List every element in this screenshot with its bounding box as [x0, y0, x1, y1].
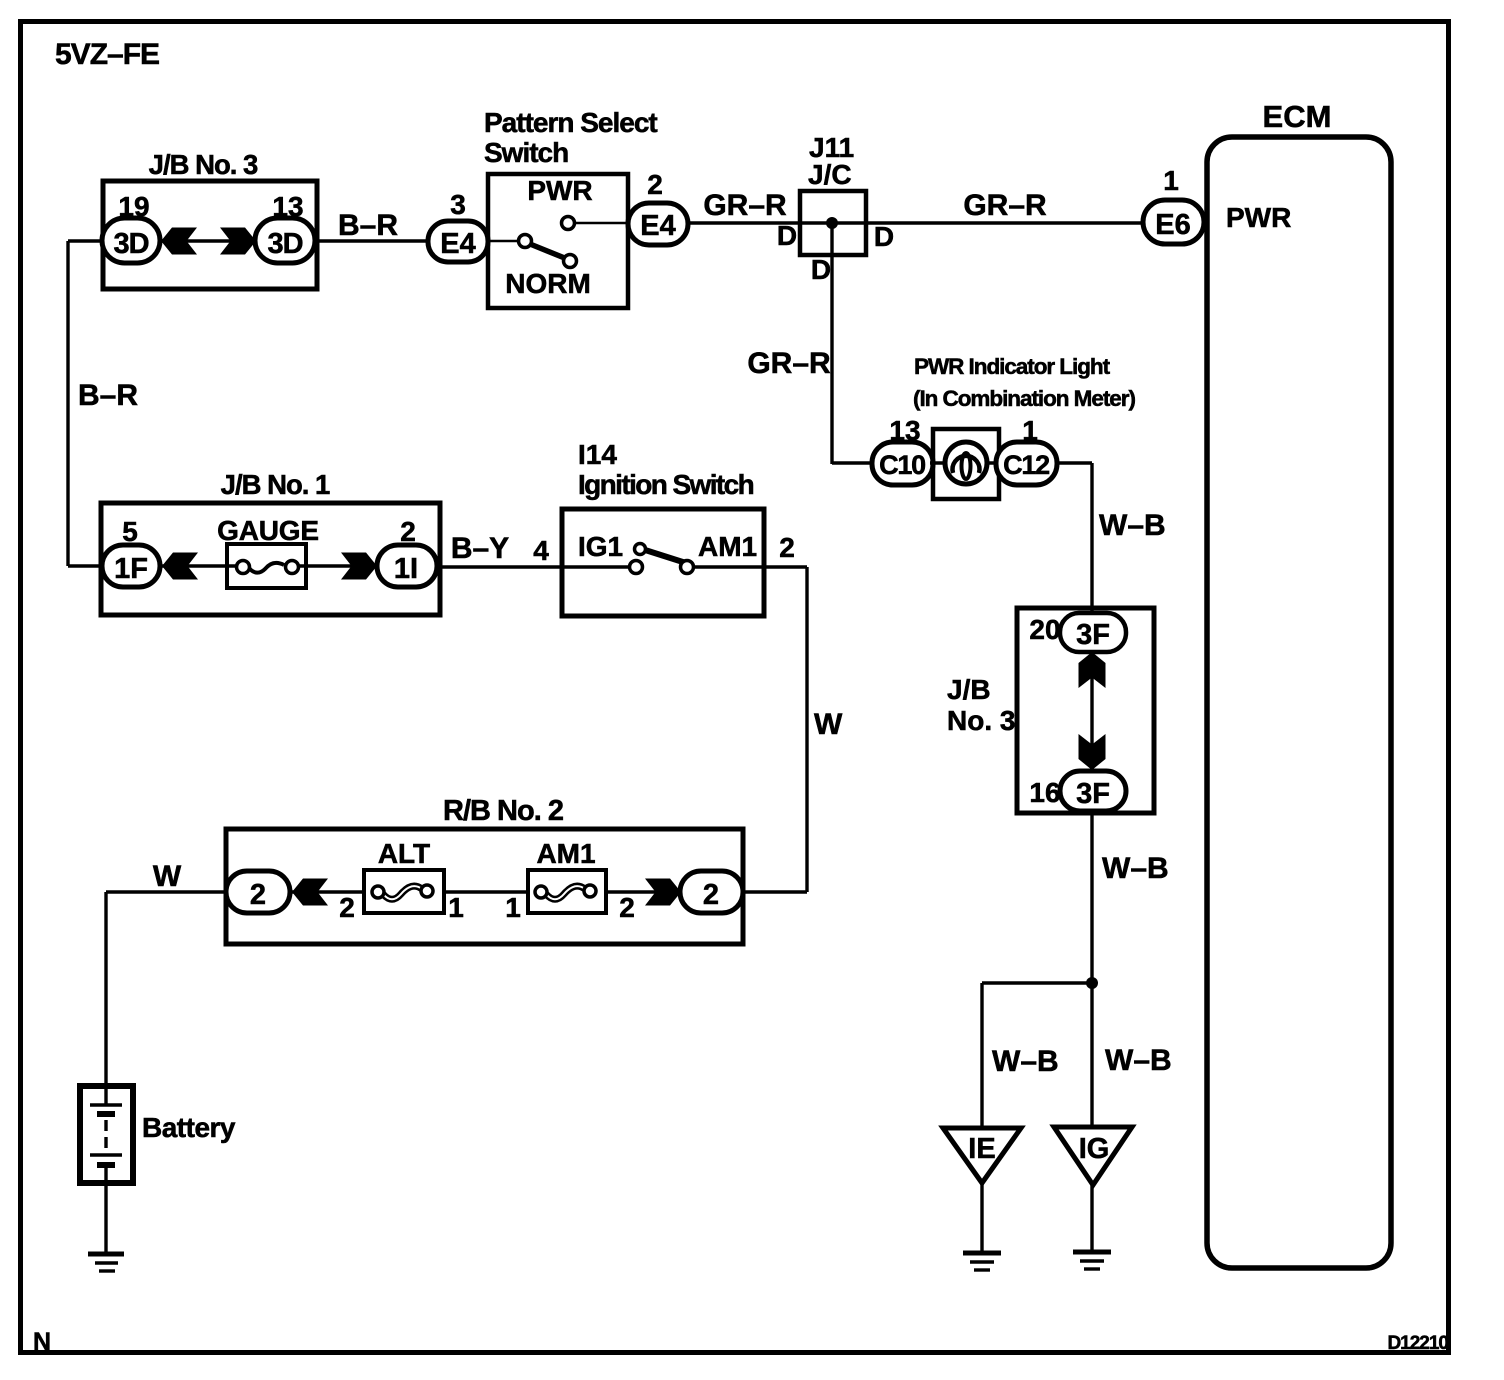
svg-text:Pattern Select: Pattern Select	[484, 107, 657, 138]
svg-text:D: D	[874, 221, 894, 252]
svg-text:Ignition Switch: Ignition Switch	[578, 469, 754, 500]
wire inside J/B No.1	[158, 564, 238, 567]
male arrow up	[1079, 652, 1106, 688]
wire GR-R main run	[688, 221, 1145, 224]
J/B No. 3 (top left) box	[103, 181, 317, 289]
wire B-R horizontal	[315, 239, 430, 242]
AM1 contact	[681, 561, 694, 574]
svg-text:ALT: ALT	[378, 838, 430, 869]
svg-text:16: 16	[1029, 777, 1060, 808]
wire IE to ground	[980, 1183, 983, 1253]
svg-text:B–Y: B–Y	[451, 532, 509, 565]
male arrow right	[341, 553, 377, 580]
svg-text:B–R: B–R	[338, 209, 398, 242]
svg-text:1: 1	[448, 892, 464, 923]
battery box	[80, 1086, 133, 1183]
connector 2 right	[680, 871, 743, 913]
wire B-Y	[437, 565, 632, 568]
wire IG to ground	[1090, 1185, 1093, 1252]
svg-text:AM1: AM1	[698, 531, 757, 562]
svg-text:5VZ–FE: 5VZ–FE	[55, 38, 159, 71]
wire between 3D connectors	[158, 239, 257, 242]
svg-text:W: W	[814, 708, 843, 741]
svg-text:IG1: IG1	[578, 531, 623, 562]
svg-text:GAUGE: GAUGE	[217, 515, 319, 546]
fuse GAUGE box	[227, 544, 306, 588]
svg-text:W–B: W–B	[992, 1045, 1059, 1078]
lever hook	[635, 544, 646, 555]
svg-text:AM1: AM1	[536, 838, 595, 869]
connector C10	[872, 442, 933, 485]
connector 3D right	[255, 218, 315, 263]
svg-text:No. 3: No. 3	[947, 705, 1015, 736]
pattern select switch box	[488, 174, 628, 308]
svg-text:2: 2	[703, 879, 719, 911]
connector E4 right	[628, 203, 688, 245]
svg-text:J/B No. 3: J/B No. 3	[149, 149, 258, 180]
wire branch left	[982, 981, 1092, 984]
svg-text:W–B: W–B	[1099, 509, 1166, 542]
svg-text:PWR: PWR	[527, 175, 592, 206]
svg-text:IG: IG	[1079, 1133, 1110, 1165]
wire common contact to box edge	[488, 240, 520, 243]
svg-text:J/B No. 1: J/B No. 1	[221, 469, 330, 500]
wire GR-R vertical from J/C	[830, 223, 833, 464]
male arrow left	[161, 228, 197, 255]
svg-text:IE: IE	[968, 1133, 995, 1165]
wire between 3F connectors	[1090, 652, 1093, 771]
ignition switch box	[562, 509, 764, 616]
wire battery to ground	[104, 1168, 107, 1254]
connector 3D left	[102, 218, 160, 263]
connector 1F	[102, 545, 160, 587]
svg-text:J/C: J/C	[808, 159, 852, 190]
svg-text:4: 4	[533, 535, 549, 566]
wire from C12 to vertical run	[1057, 461, 1092, 464]
svg-text:NORM: NORM	[505, 268, 591, 299]
wire AM1 out	[694, 565, 807, 568]
svg-text:1: 1	[505, 892, 521, 923]
svg-text:E6: E6	[1155, 209, 1190, 241]
svg-text:D: D	[811, 254, 831, 285]
node D junction dot	[826, 217, 838, 229]
node junction dot	[1086, 977, 1098, 989]
male arrow right	[645, 879, 681, 906]
svg-text:W: W	[153, 860, 182, 893]
J/B No. 1 box	[101, 503, 440, 615]
svg-text:(In Combination Meter): (In Combination Meter)	[913, 386, 1135, 411]
switch lever	[642, 549, 686, 563]
male arrow left	[162, 553, 198, 580]
J/B No. 3 (right) box	[1017, 608, 1154, 813]
PWR contact	[562, 217, 575, 230]
lamp bulb	[945, 442, 987, 484]
wire W vertical	[805, 567, 808, 892]
ground symbol IE	[963, 1253, 1001, 1270]
svg-text:GR–R: GR–R	[963, 189, 1047, 222]
svg-text:W–B: W–B	[1102, 852, 1169, 885]
svg-text:2: 2	[619, 892, 635, 923]
svg-text:5: 5	[122, 516, 138, 547]
svg-text:2: 2	[250, 879, 266, 911]
svg-text:I14: I14	[578, 439, 617, 470]
svg-text:GR–R: GR–R	[703, 189, 787, 222]
svg-text:3D: 3D	[267, 228, 302, 260]
fusible link AM1 box	[528, 870, 606, 913]
junction connector J11 box	[800, 191, 866, 255]
svg-text:J/B: J/B	[947, 674, 991, 705]
svg-text:ECM: ECM	[1263, 99, 1332, 134]
connector 1I	[377, 545, 437, 587]
connector 3F top	[1060, 613, 1126, 652]
connector C12	[996, 442, 1057, 485]
svg-text:GR–R: GR–R	[747, 347, 831, 380]
connector E6	[1143, 200, 1204, 244]
male arrow right	[220, 228, 256, 255]
svg-text:2: 2	[779, 532, 795, 563]
IG1 contact	[630, 561, 643, 574]
R/B No. 2 box	[226, 829, 743, 944]
svg-text:D: D	[777, 220, 797, 251]
wire W-B below J/B	[1090, 811, 1093, 983]
svg-text:PWR Indicator Light: PWR Indicator Light	[914, 354, 1111, 379]
wire B-R vertical left	[68, 239, 103, 242]
male arrow down	[1079, 734, 1106, 770]
ground point IE	[943, 1128, 1021, 1183]
ground point IG	[1054, 1127, 1132, 1185]
svg-text:1F: 1F	[114, 553, 148, 585]
connector E4 left	[428, 221, 488, 262]
svg-text:20: 20	[1029, 614, 1060, 645]
svg-text:2: 2	[647, 169, 663, 200]
connector 3F bottom	[1060, 771, 1126, 811]
wire to IG ground	[1090, 983, 1093, 1128]
svg-text:C12: C12	[1003, 450, 1049, 480]
svg-text:3: 3	[450, 189, 466, 220]
svg-text:W–B: W–B	[1105, 1044, 1172, 1077]
battery plates	[90, 1105, 122, 1165]
svg-text:PWR: PWR	[1226, 202, 1291, 233]
svg-text:3F: 3F	[1076, 778, 1110, 810]
switch lever	[530, 244, 567, 259]
svg-text:1: 1	[1163, 165, 1179, 196]
wire inside R/B	[288, 890, 366, 893]
wire through lamp	[930, 461, 1000, 464]
ground symbol battery	[88, 1254, 124, 1271]
svg-text:B–R: B–R	[78, 379, 138, 412]
svg-text:3F: 3F	[1076, 619, 1110, 651]
male arrow left	[292, 879, 328, 906]
fuse GAUGE symbol	[237, 561, 299, 574]
wire W left horizontal	[106, 890, 228, 893]
fusible link ALT box	[364, 870, 444, 913]
svg-text:3D: 3D	[113, 228, 148, 260]
svg-text:D12210: D12210	[1387, 1333, 1448, 1354]
ECM box	[1207, 137, 1391, 1268]
fusible link AM1 symbol	[535, 885, 596, 899]
svg-text:1I: 1I	[394, 553, 418, 585]
svg-text:R/B No. 2: R/B No. 2	[443, 795, 563, 827]
wire PWR contact to box edge	[570, 222, 630, 225]
svg-text:2: 2	[339, 892, 355, 923]
svg-text:2: 2	[400, 516, 416, 547]
wire W-B vertical to J/B No.3	[1090, 463, 1093, 615]
svg-text:Battery: Battery	[142, 1112, 236, 1143]
common contact	[519, 235, 532, 248]
svg-text:N: N	[33, 1328, 51, 1356]
ground symbol IG	[1073, 1252, 1111, 1269]
svg-text:Switch: Switch	[484, 137, 568, 168]
fusible link ALT symbol	[372, 885, 433, 899]
wire W down to battery	[104, 892, 107, 1104]
svg-text:E4: E4	[640, 210, 675, 242]
connector 2 left	[226, 871, 290, 913]
NORM contact	[564, 255, 577, 268]
svg-text:E4: E4	[440, 228, 475, 260]
svg-text:C10: C10	[879, 450, 925, 480]
indicator lamp box	[933, 429, 999, 499]
